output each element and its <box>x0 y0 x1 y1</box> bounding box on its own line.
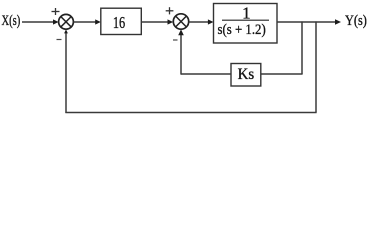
summing junction 1 minus sign <box>57 39 62 41</box>
node takeoff point outer feedback (wire down to bottom line) <box>315 21 317 112</box>
svg-text:1: 1 <box>242 3 251 22</box>
summing junction 1 <box>59 14 74 29</box>
summing junction 1 plus sign <box>52 8 60 15</box>
svg-text:16: 16 <box>113 14 125 32</box>
summing junction 2 minus sign <box>173 39 178 41</box>
node Y(s) output label <box>345 12 367 28</box>
wire plant block to output Y(s) <box>277 19 341 25</box>
wire block 16 to summing junction 2 <box>141 19 173 24</box>
summing junction 2 <box>173 14 188 29</box>
block Ks (rate feedback) <box>231 64 261 87</box>
node takeoff point inner feedback (wire down to Ks line) <box>301 21 303 74</box>
wire outer feedback bottom line <box>65 112 316 114</box>
wire takeoff to Ks block input <box>261 73 303 75</box>
node X(s) input label <box>2 12 21 28</box>
wire Ks block output to summing junction 2 <box>178 29 231 74</box>
wire outer feedback up to summing junction 1 <box>64 29 68 113</box>
wire summing junction 2 to plant block <box>189 19 214 24</box>
summing junction 2 plus sign <box>166 7 174 14</box>
block 1/(s(s+1.2)) plant transfer function <box>214 3 278 43</box>
block 16 (gain) <box>101 8 142 34</box>
svg-text:Ks: Ks <box>238 66 255 83</box>
wire input to summing junction 1 <box>22 19 59 24</box>
svg-text:X(s): X(s) <box>2 12 21 28</box>
svg-text:Y(s): Y(s) <box>345 12 367 28</box>
svg-text:s(s + 1.2): s(s + 1.2) <box>217 22 266 38</box>
wire summing junction 1 to block 16 <box>74 19 101 24</box>
